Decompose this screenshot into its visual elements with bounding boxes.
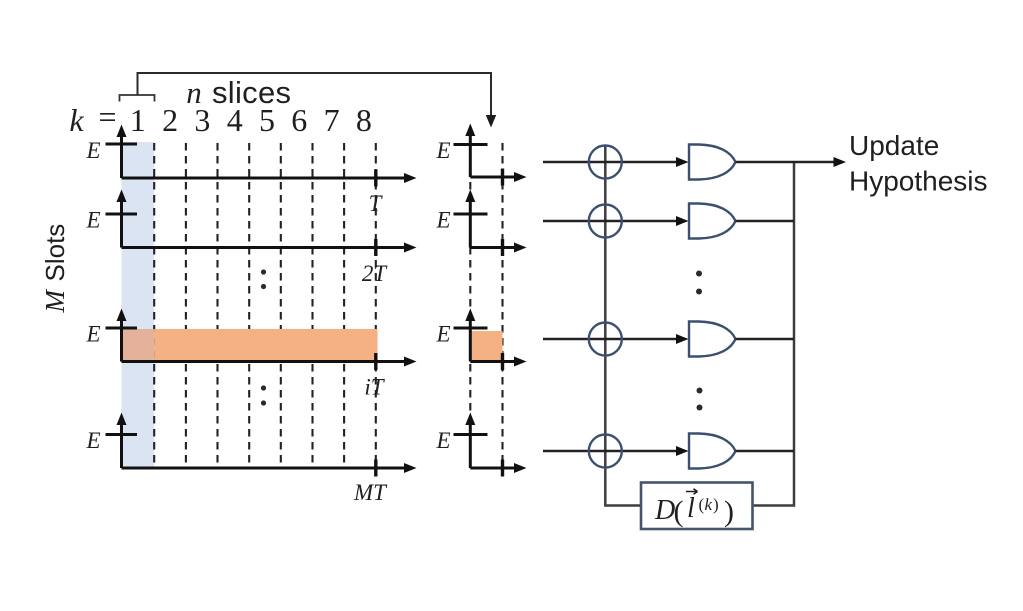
svg-text:4: 4 xyxy=(227,102,243,138)
dots between AND2 and AND3 xyxy=(696,271,702,295)
dots between axis 3 and 4 xyxy=(261,385,266,405)
svg-text:E: E xyxy=(435,208,450,233)
AND gate A4 xyxy=(689,434,736,469)
svg-text:7: 7 xyxy=(324,102,340,138)
dots between axis 2 and 3 xyxy=(261,269,266,289)
svg-text:E: E xyxy=(435,322,450,347)
XOR gate X3 xyxy=(589,323,622,356)
slice numbers 1-8 xyxy=(130,102,372,138)
wire row 2 xyxy=(543,216,689,226)
T label xyxy=(369,191,384,216)
left timeline axis 4 xyxy=(106,423,405,477)
wire: AND3 output xyxy=(736,338,795,341)
svg-text:slices: slices xyxy=(212,75,291,110)
iT label xyxy=(364,375,385,400)
wire row 3 xyxy=(543,334,689,344)
svg-text:2: 2 xyxy=(162,102,178,138)
svg-text:E: E xyxy=(85,138,100,163)
bracket over slice 1 xyxy=(120,95,155,102)
label: k = xyxy=(69,99,116,139)
blue/orange overlap xyxy=(122,329,155,362)
svg-text:M: M xyxy=(40,289,70,314)
svg-text:=: = xyxy=(98,99,116,135)
svg-text:T: T xyxy=(369,191,384,216)
E label mini axis 3 xyxy=(435,322,450,347)
2T label xyxy=(362,261,389,286)
svg-text:8: 8 xyxy=(356,102,372,138)
svg-text:Slots: Slots xyxy=(40,224,70,282)
decision box D(l(k)) xyxy=(641,483,753,530)
left timeline axis 1 xyxy=(106,135,405,187)
E label axis 4 xyxy=(85,428,100,453)
shaded slice-1 column (blue) xyxy=(122,142,155,468)
wire: AND2 output xyxy=(736,220,795,223)
svg-text:5: 5 xyxy=(259,102,275,138)
AND gate A2 xyxy=(689,204,736,239)
svg-text:Hypothesis: Hypothesis xyxy=(849,166,988,197)
wire from bracket to middle column (top route) xyxy=(138,73,497,128)
E label axis 2 xyxy=(85,208,100,233)
middle mini axis 4 xyxy=(454,423,515,477)
AND gate A3 xyxy=(689,322,736,357)
svg-text:E: E xyxy=(85,428,100,453)
dashed slice gridlines (left) xyxy=(154,143,376,468)
left timeline axis 3 xyxy=(106,319,405,370)
svg-text:k: k xyxy=(69,102,84,138)
wire: AND4 output xyxy=(736,450,795,453)
left vertical bus through XOR gates xyxy=(605,147,641,506)
svg-text:Update: Update xyxy=(849,130,939,161)
dots between AND3 and AND4 xyxy=(697,388,703,411)
label: n slices xyxy=(186,75,291,110)
E label mini axis 4 xyxy=(435,428,450,453)
E label mini axis 1 xyxy=(435,138,450,163)
shaded row i (orange band) xyxy=(154,329,377,362)
middle mini axis 2 xyxy=(454,200,515,256)
svg-text:E: E xyxy=(435,428,450,453)
dashed gridlines (middle column) xyxy=(470,143,502,468)
XOR gate X4 xyxy=(589,435,622,468)
label: Update Hypothesis xyxy=(849,130,988,197)
middle mini axis 3 xyxy=(454,319,515,370)
orange square (middle mini axis 3) xyxy=(470,331,502,362)
wire row 1: input to XOR1 and AND1 xyxy=(543,157,689,167)
wire: AND1 output to update arrow xyxy=(736,157,847,167)
svg-text:3: 3 xyxy=(194,102,210,138)
middle mini axis 1 xyxy=(454,134,515,186)
E label axis 1 xyxy=(85,138,100,163)
svg-text:2T: 2T xyxy=(362,261,389,286)
right vertical bus xyxy=(754,162,794,506)
svg-text:l: l xyxy=(687,493,695,524)
svg-text:1: 1 xyxy=(130,102,146,138)
left timeline axis 2 xyxy=(106,200,405,256)
svg-text:E: E xyxy=(435,138,450,163)
E label mini axis 2 xyxy=(435,208,450,233)
svg-text:D: D xyxy=(654,495,675,526)
svg-text:iT: iT xyxy=(364,375,385,400)
svg-text:): ) xyxy=(724,495,734,528)
svg-text:E: E xyxy=(85,208,100,233)
svg-text:k: k xyxy=(705,495,713,514)
XOR gate X1 xyxy=(589,146,622,179)
AND gate A1 xyxy=(689,145,736,180)
svg-text:): ) xyxy=(713,495,719,514)
MT label xyxy=(353,480,388,505)
svg-text:(: ( xyxy=(674,495,684,528)
E label axis 3 xyxy=(85,322,100,347)
label: M Slots (rotated) xyxy=(40,224,70,314)
XOR gate X2 xyxy=(589,205,622,238)
svg-text:E: E xyxy=(85,322,100,347)
svg-text:6: 6 xyxy=(291,102,307,138)
wire row 4 xyxy=(543,446,689,456)
svg-text:MT: MT xyxy=(353,480,388,505)
